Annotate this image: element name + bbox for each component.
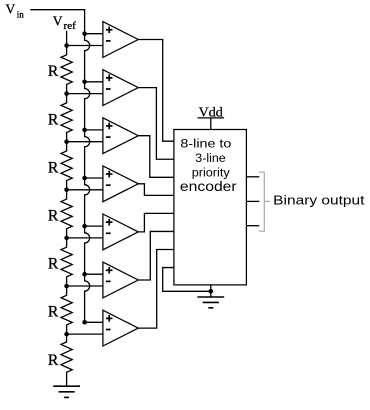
wire ladder tap 4 to comparator U4 inverting input (crosses under Vin bus) bbox=[67, 189, 103, 191]
svg-text:R: R bbox=[48, 256, 59, 273]
svg-text:priority: priority bbox=[192, 165, 231, 179]
wire comparator U4 output to encoder input (row 4 from top) bbox=[138, 184, 174, 196]
op-amp comparator U4 bbox=[103, 166, 138, 202]
junction ladder tap 4 bbox=[64, 188, 69, 193]
wire encoder binary output bit 0 bbox=[246, 225, 259, 227]
wire Vin bus stub to comparator U2 non-inverting input bbox=[85, 81, 103, 83]
svg-text:Vin: Vin bbox=[6, 2, 25, 20]
wire comparator U5 output to encoder input (row 5 from top) bbox=[138, 213, 174, 232]
wire Vdd to encoder top bbox=[210, 118, 212, 130]
op-amp comparator U7 bbox=[103, 310, 138, 346]
resistor R (ladder resistor 3) bbox=[61, 142, 72, 190]
wire Vin bus stub to comparator U3 non-inverting input bbox=[85, 129, 103, 131]
label inside encoder: 8-line to 3-line priority encoder bbox=[180, 137, 237, 195]
junction ladder tap 2 bbox=[64, 91, 69, 96]
op-amp comparator U1 bbox=[103, 22, 138, 58]
wire comparator U7 output to encoder input (row 7 from top) bbox=[138, 250, 174, 329]
wire comparator U6 output to encoder input (row 6 from top) bbox=[138, 231, 174, 280]
power rail Vdd bar bbox=[198, 117, 225, 119]
svg-text:R: R bbox=[48, 159, 59, 176]
wire Vin bus stub to comparator U7 non-inverting input bbox=[85, 321, 103, 323]
wire from V_in label to Vin bus bbox=[30, 9, 84, 11]
svg-text:R: R bbox=[48, 208, 59, 225]
encoder U8: 8-line to 3-line priority encoder box bbox=[174, 130, 247, 285]
junction Vin bus tap for U1 bbox=[82, 31, 87, 36]
junction ladder tap 7 bbox=[64, 332, 69, 337]
svg-text:R: R bbox=[48, 63, 59, 80]
ground symbol at bottom of resistor ladder bbox=[53, 386, 80, 397]
op-amp comparator U6 bbox=[103, 262, 138, 298]
wire Vin bus stub to comparator U5 non-inverting input bbox=[85, 225, 103, 227]
junction ladder tap 6 bbox=[64, 284, 69, 289]
resistor R (ladder resistor 2) bbox=[61, 94, 72, 142]
wire Vin bus stub to comparator U4 non-inverting input bbox=[85, 177, 103, 179]
svg-text:8-line to: 8-line to bbox=[180, 137, 231, 151]
resistor R (ladder resistor 1) bbox=[61, 46, 72, 94]
wire encoder binary output bit 1 bbox=[246, 200, 259, 202]
svg-text:Vref: Vref bbox=[53, 13, 76, 32]
junction ladder tap 5 bbox=[64, 236, 69, 241]
wire Vin bus stub to comparator U1 non-inverting input bbox=[85, 33, 103, 35]
junction ladder tap 1 bbox=[64, 43, 69, 48]
junction Vin bus tap for U7 bbox=[82, 320, 87, 325]
svg-text:R: R bbox=[48, 352, 59, 369]
junction Vin bus tap for U2 bbox=[82, 80, 87, 85]
wire ladder tap 6 to comparator U6 inverting input (crosses under Vin bus) bbox=[67, 285, 103, 287]
svg-text:R: R bbox=[48, 304, 59, 321]
wire encoder bottom to ground bbox=[210, 285, 212, 297]
junction ladder tap 3 bbox=[64, 139, 69, 144]
wire encoder binary output bit 2 bbox=[246, 176, 259, 178]
junction Vin bus tap for U5 bbox=[82, 224, 87, 229]
svg-text:encoder: encoder bbox=[180, 179, 237, 194]
ground symbol below encoder bbox=[197, 297, 224, 308]
op-amp comparator U3 bbox=[103, 118, 138, 154]
resistor R (ladder resistor 4) bbox=[61, 190, 72, 238]
wire ladder tap 7 to comparator U7 inverting input (crosses under Vin bus) bbox=[67, 333, 103, 335]
wire encoder input 0 to ground junction bbox=[163, 268, 211, 292]
wire comparator U2 output to encoder input (row 2 from top) bbox=[138, 88, 174, 160]
junction Vin bus tap for U3 bbox=[82, 128, 87, 133]
op-amp comparator U5 bbox=[103, 214, 138, 250]
wire V_ref stub to top ladder tap bbox=[66, 31, 68, 46]
svg-text:R: R bbox=[48, 111, 59, 128]
wire Vin bus vertical (hops over ladder tap wires) bbox=[85, 9, 90, 322]
wire ladder tap 5 to comparator U5 inverting input (crosses under Vin bus) bbox=[67, 237, 103, 239]
wire ladder tap 1 to comparator U1 inverting input (crosses under Vin bus) bbox=[67, 45, 103, 47]
junction encoder ground node bbox=[209, 289, 214, 294]
wire comparator U3 output to encoder input (row 3 from top) bbox=[138, 136, 174, 178]
wire comparator U1 output to encoder input (row 1 from top) bbox=[138, 40, 174, 142]
junction Vin bus tap for U4 bbox=[82, 176, 87, 181]
wire ladder tap 3 to comparator U3 inverting input (crosses under Vin bus) bbox=[67, 141, 103, 143]
bracket grouping binary outputs bbox=[259, 172, 270, 231]
resistor R (ladder resistor 7) bbox=[61, 334, 72, 386]
wire ladder tap 2 to comparator U2 inverting input (crosses under Vin bus) bbox=[67, 93, 103, 95]
svg-text:Binary output: Binary output bbox=[273, 193, 365, 208]
svg-text:3-line: 3-line bbox=[195, 151, 226, 165]
resistor R (ladder resistor 5) bbox=[61, 238, 72, 286]
wire Vin bus stub to comparator U6 non-inverting input bbox=[85, 273, 103, 275]
resistor R (ladder resistor 6) bbox=[61, 286, 72, 334]
junction Vin bus tap for U6 bbox=[82, 272, 87, 277]
op-amp comparator U2 bbox=[103, 70, 138, 106]
